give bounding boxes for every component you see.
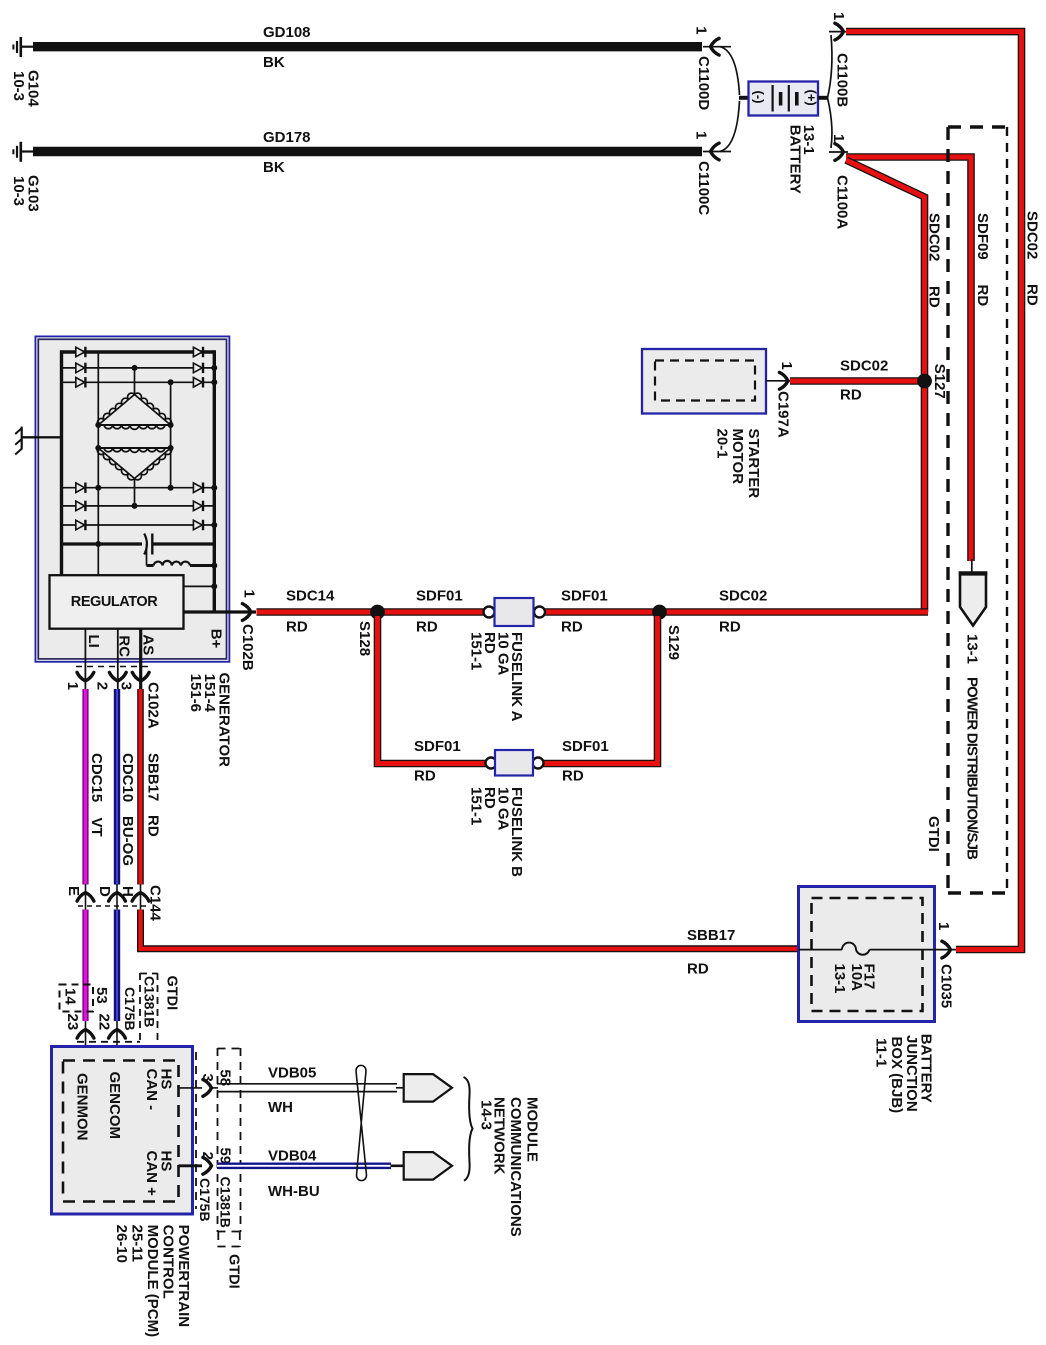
- svg-text:C1381B: C1381B: [218, 1177, 234, 1228]
- fuselink A: [484, 598, 546, 626]
- powertrain control module (PCM): [52, 1047, 193, 1215]
- connector C102A: [64, 672, 162, 728]
- svg-text:RD: RD: [1024, 284, 1041, 306]
- svg-text:2: 2: [199, 1152, 216, 1160]
- svg-text:CAN -: CAN -: [143, 1069, 160, 1111]
- svg-text:MODULE (PCM): MODULE (PCM): [144, 1225, 161, 1338]
- svg-text:RD: RD: [926, 286, 943, 308]
- svg-text:1: 1: [935, 922, 952, 930]
- svg-text:10-3: 10-3: [10, 176, 27, 206]
- svg-text:SDC02: SDC02: [719, 588, 767, 605]
- svg-text:RD: RD: [687, 961, 709, 978]
- svg-text:SBB17: SBB17: [145, 753, 162, 801]
- network brace: [464, 1077, 473, 1181]
- label SDC02 RD right side: [1024, 211, 1041, 306]
- svg-text:59: 59: [217, 1148, 234, 1165]
- svg-text:CONTROL: CONTROL: [160, 1225, 177, 1299]
- label BATTERY JUNCTION BOX (BJB) 11-1: [873, 1034, 935, 1113]
- svg-text:1: 1: [830, 12, 847, 20]
- connector C102B: [239, 590, 258, 671]
- connector C1381B/C175B pin labels: [60, 973, 180, 1043]
- wire battery positive to C1100B: [828, 35, 832, 98]
- svg-text:S129: S129: [665, 625, 682, 660]
- svg-text:BK: BK: [263, 54, 285, 71]
- connector C1100A: [829, 134, 851, 229]
- label BATTERY 13-1: [787, 125, 818, 194]
- svg-text:MODULE: MODULE: [524, 1097, 541, 1162]
- svg-text:E: E: [65, 886, 82, 896]
- svg-text:POWERTRAIN: POWERTRAIN: [175, 1225, 192, 1328]
- svg-text:RD: RD: [416, 619, 438, 636]
- wire GD178 BK: [33, 129, 702, 176]
- svg-text:2: 2: [94, 682, 111, 690]
- splice S127: [917, 364, 948, 399]
- battery junction box (BJB) 11-1: [799, 887, 935, 1022]
- svg-text:RD: RD: [719, 619, 741, 636]
- label SBB17 RD: [687, 927, 735, 978]
- svg-text:11-1: 11-1: [873, 1038, 890, 1067]
- wire SDC02 RD from C1100A diagonal to S127 branch: [846, 160, 925, 612]
- generator rectifier diodes: [76, 347, 203, 530]
- svg-text:14: 14: [62, 988, 79, 1005]
- svg-text:RD: RD: [974, 285, 991, 307]
- svg-text:B+: B+: [208, 629, 225, 649]
- svg-text:C144: C144: [147, 885, 164, 922]
- svg-text:LI: LI: [85, 635, 102, 648]
- generator internal bus wires: [62, 350, 218, 612]
- svg-text:C197A: C197A: [775, 391, 792, 438]
- PCM internal labels: [74, 1069, 175, 1197]
- svg-text:RD: RD: [414, 768, 436, 785]
- svg-text:H: H: [119, 886, 136, 897]
- svg-text:3: 3: [199, 1074, 216, 1082]
- svg-text:C1381B: C1381B: [142, 976, 158, 1027]
- svg-text:GTDI: GTDI: [164, 976, 180, 1011]
- label STARTER MOTOR 20-1: [714, 429, 763, 499]
- svg-text:GTDI: GTDI: [226, 1254, 242, 1289]
- generator pins LI RC AS: [85, 629, 157, 689]
- wire SDF09 RD from C1100A to SJB connector: [846, 157, 971, 561]
- svg-text:RD: RD: [840, 387, 862, 404]
- svg-text:BK: BK: [263, 159, 285, 176]
- wire CDC10 (C144 to PCM): [114, 910, 120, 1022]
- svg-text:1: 1: [241, 590, 258, 598]
- svg-text:COMMUNICATIONS: COMMUNICATIONS: [507, 1097, 524, 1237]
- svg-text:VDB05: VDB05: [268, 1065, 316, 1082]
- svg-text:SDF01: SDF01: [562, 738, 609, 755]
- svg-text:SDC14: SDC14: [286, 588, 335, 605]
- svg-text:C175B: C175B: [122, 987, 138, 1031]
- label SDF01 RD (A right): [561, 588, 608, 636]
- svg-text:C1100B: C1100B: [834, 53, 851, 107]
- connector C197A: [766, 362, 795, 438]
- generator inductor: [147, 544, 218, 569]
- svg-text:SDF09: SDF09: [974, 213, 991, 260]
- svg-text:BOX (BJB): BOX (BJB): [888, 1037, 905, 1114]
- label SDC02 RD at S127 branch: [926, 213, 943, 308]
- svg-text:STARTER: STARTER: [745, 429, 762, 499]
- svg-text:(-): (-): [752, 91, 767, 104]
- PCM pin 3 HS CAN- output: [179, 1074, 219, 1097]
- PCM entry arrows: [77, 1021, 125, 1062]
- svg-text:D: D: [96, 886, 113, 897]
- svg-text:22: 22: [96, 1014, 113, 1031]
- connector C1100B: [829, 12, 851, 107]
- svg-text:13-1: 13-1: [964, 634, 981, 664]
- splice S128: [356, 605, 385, 656]
- label G103 10-3: [10, 175, 42, 212]
- terminal VDB05: [404, 1074, 452, 1102]
- svg-text:151-1: 151-1: [468, 632, 485, 670]
- wire VDB05 WH: [217, 1065, 405, 1117]
- svg-text:BU-OG: BU-OG: [119, 816, 136, 866]
- label FUSELINK B 10 GA RD 151-1: [468, 787, 526, 877]
- svg-text:CAN +: CAN +: [143, 1151, 160, 1197]
- svg-text:S127: S127: [931, 364, 948, 399]
- svg-text:C102B: C102B: [239, 624, 256, 671]
- wire from C1100D to battery negative: [703, 46, 731, 48]
- svg-text:53: 53: [93, 987, 110, 1004]
- svg-text:REGULATOR: REGULATOR: [71, 594, 158, 610]
- svg-text:RD: RD: [562, 768, 584, 785]
- B+ output wire: [184, 612, 257, 649]
- svg-text:RD: RD: [145, 815, 162, 837]
- label 2: [179, 1152, 217, 1175]
- svg-text:23: 23: [64, 1014, 81, 1031]
- svg-text:CDC15: CDC15: [88, 753, 105, 802]
- svg-text:(+): (+): [804, 90, 819, 106]
- svg-text:C1100D: C1100D: [695, 56, 712, 110]
- svg-text:RD: RD: [561, 619, 583, 636]
- svg-text:SDF01: SDF01: [416, 588, 463, 605]
- svg-text:AS: AS: [140, 634, 157, 655]
- svg-text:151-6: 151-6: [187, 674, 204, 712]
- label SDC02 RD starter: [840, 358, 888, 404]
- svg-text:SDC02: SDC02: [840, 358, 888, 375]
- starter motor 20-1: [642, 349, 766, 414]
- label FUSELINK A 10 GA RD 151-1: [468, 632, 526, 722]
- regulator feedback wire: [184, 583, 218, 589]
- svg-text:20-1: 20-1: [714, 429, 731, 459]
- svg-text:GENMON: GENMON: [74, 1073, 91, 1141]
- label POWERTRAIN CONTROL MODULE (PCM) 25-11 26-10: [113, 1225, 192, 1338]
- svg-text:26-10: 26-10: [113, 1225, 130, 1263]
- generator stator winding delta 1: [97, 393, 171, 429]
- wire GD108 BK: [33, 24, 702, 71]
- fuse F17 10A: [799, 943, 957, 994]
- label SDF09 RD: [974, 213, 991, 306]
- svg-text:1: 1: [693, 26, 710, 34]
- wire CDC15 (C144 to PCM): [82, 910, 88, 1022]
- connector C1100C: [693, 131, 720, 215]
- wire VDB04 WH-BU: [217, 1148, 391, 1201]
- label SDF01 RD (B right): [562, 738, 609, 785]
- connector C1381B/C175B output strip: [196, 1048, 242, 1289]
- svg-text:C175B: C175B: [197, 1178, 213, 1222]
- wire SBB17 RD (C144 to BJB): [141, 910, 800, 949]
- battery 13-1: [739, 82, 828, 116]
- svg-text:C1100A: C1100A: [834, 175, 851, 229]
- ground G104: [13, 37, 33, 57]
- wire SDC02 RD starter to S127: [790, 377, 921, 385]
- svg-text:POWER DISTRIBUTION/SJB: POWER DISTRIBUTION/SJB: [964, 677, 981, 860]
- svg-text:25-11: 25-11: [129, 1225, 146, 1263]
- svg-text:MOTOR: MOTOR: [729, 429, 746, 485]
- svg-text:C1100C: C1100C: [695, 161, 712, 215]
- splice S129: [652, 605, 682, 660]
- connector C144: [65, 884, 164, 922]
- label G104 10-3: [10, 70, 42, 107]
- svg-text:3: 3: [118, 682, 135, 690]
- svg-text:VT: VT: [88, 818, 105, 837]
- svg-text:10A: 10A: [848, 964, 865, 992]
- label SDC14 RD: [286, 588, 335, 636]
- wire battery positive to C1100A: [828, 98, 832, 148]
- svg-text:14-3: 14-3: [478, 1100, 495, 1130]
- wire from C1100C to battery negative: [703, 151, 731, 153]
- svg-text:151-1: 151-1: [468, 787, 485, 825]
- wire SDC14/SDF01/SDC02 main feed: [257, 608, 485, 616]
- svg-text:GD178: GD178: [263, 129, 311, 146]
- svg-text:CDC10: CDC10: [119, 753, 136, 802]
- SJB terminal 13-1: [959, 559, 987, 664]
- svg-text:WH: WH: [268, 1099, 293, 1116]
- label SDF01 RD (B left): [414, 738, 461, 785]
- svg-text:13-1: 13-1: [800, 125, 817, 155]
- svg-text:SDF01: SDF01: [414, 738, 461, 755]
- svg-text:C102A: C102A: [145, 682, 162, 729]
- wire SDC02 RD from C1100B down right side to C1035: [846, 32, 1022, 950]
- svg-text:10-3: 10-3: [10, 71, 27, 101]
- regulator: [50, 575, 184, 629]
- svg-text:S128: S128: [356, 621, 373, 656]
- svg-text:C1035: C1035: [938, 964, 955, 1008]
- svg-text:GD108: GD108: [263, 24, 311, 41]
- svg-text:GENCOM: GENCOM: [106, 1072, 123, 1140]
- fuselink B: [486, 750, 544, 776]
- connector C1035: [935, 922, 955, 1008]
- generator capacitor: [62, 534, 215, 555]
- generator 151-4 151-6 box: [35, 336, 229, 661]
- label SDC02 RD (main): [719, 588, 767, 636]
- chassis ground stub at generator: [15, 427, 62, 455]
- label GENERATOR 151-4 151-6: [187, 673, 233, 768]
- twisted pair symbol: [356, 1065, 367, 1180]
- svg-text:RC: RC: [116, 635, 133, 657]
- svg-text:1: 1: [830, 134, 847, 142]
- svg-text:VDB04: VDB04: [268, 1148, 317, 1165]
- wire CDC15 VT: [86, 689, 106, 885]
- svg-text:1: 1: [64, 682, 81, 690]
- connector C1100D: [693, 26, 720, 110]
- svg-text:WH-BU: WH-BU: [268, 1183, 320, 1200]
- ground G103: [13, 142, 33, 162]
- wire SDF01 RD branch via fuselink B: [378, 616, 487, 764]
- svg-text:SBB17: SBB17: [687, 927, 735, 944]
- label MODULE COMMUNICATIONS NETWORK 14-3: [478, 1097, 541, 1237]
- label SDF01 RD (A left): [416, 588, 463, 636]
- wire CDC10 BU-OG: [117, 689, 136, 885]
- wire SBB17 RD (generator to C144): [141, 689, 162, 885]
- svg-text:1: 1: [778, 362, 795, 370]
- terminal VDB04: [391, 1152, 453, 1180]
- svg-text:GTDI: GTDI: [925, 816, 942, 852]
- svg-text:SDC02: SDC02: [1024, 211, 1041, 259]
- svg-text:SDC02: SDC02: [926, 213, 943, 261]
- svg-text:SDF01: SDF01: [561, 588, 608, 605]
- svg-text:13-1: 13-1: [831, 964, 848, 994]
- connector C102A dashes: [76, 666, 151, 668]
- svg-text:RD: RD: [286, 619, 308, 636]
- generator stator winding delta 2: [97, 448, 171, 480]
- svg-text:1: 1: [693, 131, 710, 139]
- power distribution/SJB dashed box: [948, 127, 1007, 893]
